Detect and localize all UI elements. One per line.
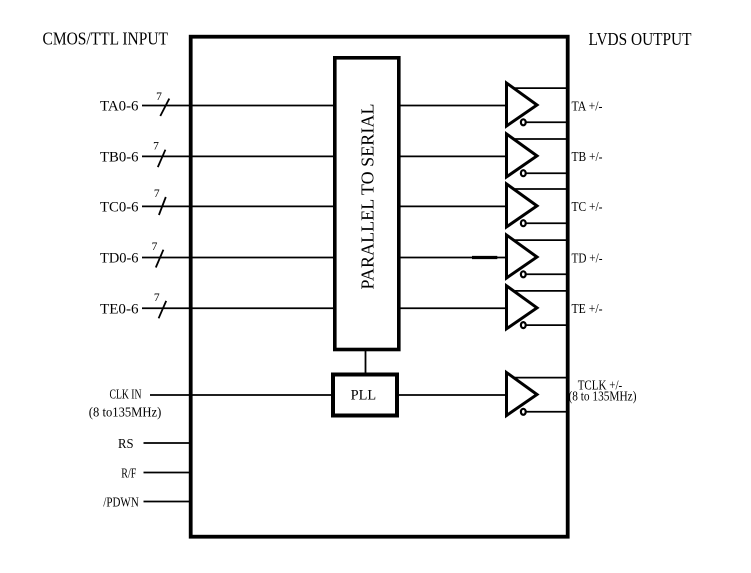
svg-text:TD0-6: TD0-6 (100, 251, 139, 267)
svg-text:PLL: PLL (351, 387, 377, 403)
svg-text:(8 to135MHz): (8 to135MHz) (89, 406, 162, 421)
svg-text:TB +/-: TB +/- (572, 150, 603, 165)
svg-text:7: 7 (156, 91, 162, 103)
svg-text:TE +/-: TE +/- (572, 302, 603, 317)
svg-text:TC +/-: TC +/- (572, 200, 603, 215)
svg-text:TA +/-: TA +/- (572, 99, 603, 114)
svg-text:7: 7 (154, 188, 160, 200)
svg-text:(8 to 135MHz): (8 to 135MHz) (569, 390, 637, 405)
svg-text:7: 7 (153, 141, 159, 153)
svg-text:/PDWN: /PDWN (103, 495, 139, 510)
svg-text:7: 7 (154, 292, 160, 304)
svg-text:TB0-6: TB0-6 (100, 149, 139, 165)
svg-text:LVDS OUTPUT: LVDS OUTPUT (589, 29, 692, 49)
svg-text:RS: RS (118, 437, 134, 452)
svg-text:TE0-6: TE0-6 (100, 301, 139, 317)
svg-text:TA0-6: TA0-6 (100, 99, 139, 115)
svg-text:R/F: R/F (121, 466, 136, 481)
svg-text:PARALLEL TO SERIAL: PARALLEL TO SERIAL (358, 104, 378, 290)
svg-text:TC0-6: TC0-6 (100, 199, 139, 215)
svg-text:CMOS/TTL INPUT: CMOS/TTL INPUT (43, 29, 169, 49)
svg-text:TD +/-: TD +/- (572, 251, 603, 266)
svg-text:7: 7 (152, 241, 158, 253)
svg-text:CLK IN: CLK IN (110, 388, 142, 403)
